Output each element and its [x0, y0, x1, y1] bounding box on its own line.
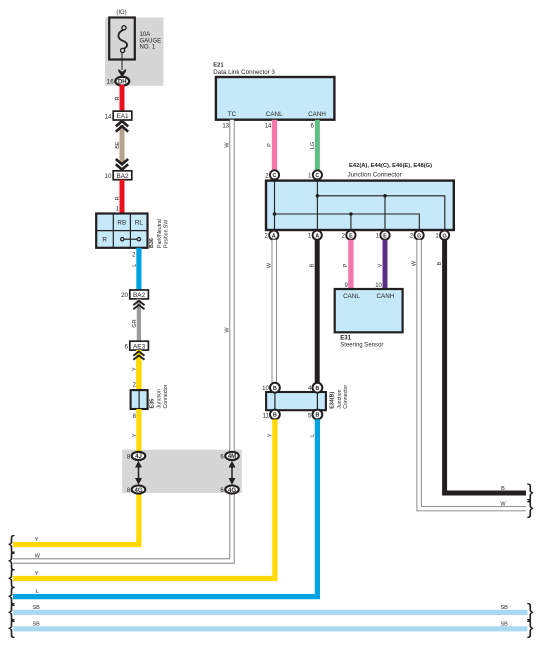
svg-text:Steering Sensor: Steering Sensor — [340, 342, 383, 348]
svg-text:4G: 4G — [134, 488, 142, 494]
splice 4M — [220, 452, 238, 461]
svg-text:10: 10 — [105, 173, 112, 180]
svg-text:Y: Y — [132, 433, 138, 437]
svg-text:GAUGE: GAUGE — [140, 38, 162, 44]
chevrons above BA2 — [116, 159, 128, 170]
svg-text:E21: E21 — [213, 63, 224, 69]
splice DH — [115, 77, 129, 86]
wire SB (bus 2) — [13, 626, 528, 631]
splice 4G (left) — [127, 485, 145, 494]
component label E35 Junction Connector — [150, 384, 169, 408]
svg-text:L: L — [310, 434, 316, 437]
svg-text:CANH: CANH — [376, 293, 394, 300]
pin 11B — [263, 410, 280, 420]
svg-text:Position SW: Position SW — [164, 220, 170, 248]
svg-text:W: W — [225, 327, 231, 333]
wire CANH bus (upper) — [317, 179, 444, 230]
pin 1A — [308, 231, 322, 240]
svg-text:Park/Neutral: Park/Neutral — [157, 219, 163, 248]
wire Y (AE3 to E35) — [136, 350, 142, 390]
svg-text:RL: RL — [135, 220, 144, 227]
svg-text:C: C — [315, 173, 319, 179]
svg-text:E: E — [383, 233, 387, 239]
gray panel junction-block area — [122, 450, 242, 493]
connector AE3 pin 6 — [125, 341, 149, 350]
svg-text:Junction: Junction — [337, 389, 343, 408]
wire Y (E35 down to splice 4J) — [136, 409, 141, 456]
junction connector E42(A), E44(C), E46(E), E48(G) — [266, 163, 454, 230]
svg-text:L: L — [132, 264, 138, 267]
arrow link 4M to 4G — [229, 461, 236, 485]
wire BE (EA1 to BA2) — [120, 125, 125, 164]
junction dot (2C bus) — [273, 212, 277, 216]
svg-text:}: } — [527, 617, 534, 639]
wire R (DH to EA1) — [120, 85, 125, 111]
sensor E31 Steering Sensor — [335, 289, 403, 348]
svg-text:AE3: AE3 — [133, 343, 146, 350]
svg-text:B: B — [273, 413, 277, 419]
pin 2A — [265, 231, 279, 240]
svg-text:B: B — [437, 261, 443, 265]
arrow into DH — [118, 69, 126, 77]
svg-text:W: W — [412, 260, 418, 266]
svg-text:B: B — [315, 386, 319, 392]
svg-text:4M: 4M — [228, 454, 236, 460]
wire W (E21 TC down to splice 4M) — [229, 120, 234, 456]
wire Y (splice 4G down to bottom) — [13, 490, 139, 545]
svg-text:Y: Y — [35, 537, 39, 543]
wire Y (E34 pin 11 down to bottom) — [13, 419, 275, 578]
svg-text:4G: 4G — [228, 488, 236, 494]
wire V (1E to E31 pin 10) — [383, 240, 388, 289]
svg-text:GR: GR — [132, 319, 138, 327]
wire GR (BA2 to AE3) — [137, 299, 141, 342]
pin 4B — [308, 383, 322, 393]
arrow link 4J to 4G — [135, 461, 142, 485]
wire W (splice 4G down to bottom) — [13, 490, 232, 562]
fuse value label 10A GAUGE NO. 1 — [140, 32, 162, 50]
wire R (BA2 to B36 pin 1) — [120, 180, 125, 214]
svg-text:R: R — [115, 196, 121, 200]
svg-text:}: } — [527, 497, 534, 519]
wire SB (bus 1) — [13, 610, 528, 615]
svg-text:R: R — [115, 97, 121, 101]
junction dot (2E bus) — [349, 212, 353, 216]
svg-text:Data Link Connector 3: Data Link Connector 3 — [213, 69, 275, 76]
svg-text:SB: SB — [501, 621, 509, 627]
svg-text:P: P — [343, 263, 349, 267]
svg-text:CANL: CANL — [266, 111, 283, 118]
svg-text:(IG): (IG) — [116, 10, 126, 16]
pin 5B — [308, 410, 322, 420]
svg-text:B: B — [273, 386, 277, 392]
connector E21 Data Link Connector 3 — [213, 63, 334, 120]
svg-text:Y: Y — [35, 571, 39, 577]
svg-text:16: 16 — [107, 78, 115, 85]
svg-text:4J: 4J — [135, 454, 142, 460]
svg-text:B: B — [315, 413, 319, 419]
svg-text:L: L — [36, 589, 39, 595]
pin 10B — [262, 383, 280, 393]
svg-text:A: A — [272, 233, 276, 239]
splice 4J — [127, 452, 145, 461]
wire fuse to arrow — [121, 52, 123, 70]
svg-text:R: R — [102, 237, 107, 244]
wire W (2A to E34 pin 10) — [272, 240, 277, 383]
svg-text:TC: TC — [228, 111, 237, 118]
wire P (E21 CANL to 2C) — [272, 120, 277, 171]
svg-text:G: G — [442, 233, 446, 239]
wire B (1A to E34 pin 4) — [315, 240, 320, 383]
wire L (B36 to BA2) — [136, 248, 141, 290]
chevrons below BA2 — [133, 301, 144, 309]
svg-text:SB: SB — [33, 621, 41, 627]
pin 2G — [410, 231, 424, 240]
junction dot (1C bus) — [316, 194, 320, 198]
svg-text:14: 14 — [265, 124, 272, 130]
svg-text:CANL: CANL — [343, 293, 360, 300]
svg-text:Connector: Connector — [163, 384, 169, 408]
svg-text:B: B — [310, 263, 316, 267]
svg-text:{: { — [8, 617, 15, 639]
component label E34(B) Junction Connector — [330, 385, 350, 409]
connector EA1 pin 14 — [105, 111, 132, 120]
svg-text:SB: SB — [33, 605, 41, 611]
switch B36 Park/Neutral Position SW — [96, 214, 147, 248]
svg-text:P: P — [267, 143, 273, 147]
wire L (E34 pin 5 down to bottom) — [13, 419, 317, 596]
svg-text:Y: Y — [132, 367, 138, 371]
svg-text:NO. 1: NO. 1 — [140, 45, 156, 51]
fuse 10A GAUGE NO. 1 — [109, 18, 135, 60]
svg-text:W: W — [267, 262, 273, 268]
pin 1G — [435, 231, 449, 240]
svg-text:Y: Y — [268, 433, 274, 437]
pin 1E — [376, 231, 390, 240]
svg-text:W: W — [225, 142, 231, 148]
connector BA2 pin 10 — [105, 171, 132, 180]
component label B36 Park/Neutral Position SW — [149, 219, 170, 248]
svg-text:CANH: CANH — [308, 111, 326, 118]
svg-text:EA1: EA1 — [116, 113, 129, 120]
splice 4G (right) — [220, 485, 238, 494]
svg-text:A: A — [315, 233, 319, 239]
pin 2C — [265, 170, 279, 179]
svg-text:W: W — [500, 502, 506, 508]
svg-text:SB: SB — [501, 605, 509, 611]
wire CANL bus (lower) — [274, 179, 420, 230]
wire P (2E to E31 pin 9) — [348, 240, 353, 289]
svg-text:E: E — [349, 233, 353, 239]
svg-text:BA2: BA2 — [133, 292, 146, 299]
svg-text:10: 10 — [262, 386, 269, 392]
svg-text:BA2: BA2 — [116, 173, 129, 180]
junction connector E34(B) — [266, 392, 326, 410]
svg-text:E31: E31 — [340, 335, 351, 341]
gray panel fuse area — [105, 18, 164, 86]
junction dot (1E bus) — [383, 194, 387, 198]
svg-text:LG: LG — [310, 142, 316, 149]
svg-text:6: 6 — [125, 343, 129, 350]
chevrons below AE3 — [133, 351, 144, 359]
svg-text:BE: BE — [115, 141, 121, 149]
pin 1C — [308, 170, 322, 179]
wire LG (E21 CANH to 1C) — [315, 120, 320, 171]
svg-text:W: W — [35, 554, 41, 560]
connector BA2 pin 20 — [121, 290, 148, 299]
svg-text:14: 14 — [105, 113, 112, 120]
svg-text:B36: B36 — [149, 238, 155, 248]
pin 2E — [342, 231, 356, 240]
svg-text:11: 11 — [263, 413, 270, 419]
svg-text:DH: DH — [118, 79, 127, 85]
chevrons below EA1 — [116, 121, 128, 132]
svg-text:Connector: Connector — [343, 385, 349, 409]
svg-text:B: B — [501, 486, 505, 492]
svg-text:E42(A), E44(C), E46(E), E48(G): E42(A), E44(C), E46(E), E48(G) — [349, 163, 432, 169]
svg-text:20: 20 — [121, 292, 128, 299]
junction connector E35 — [131, 390, 148, 409]
svg-text:Junction: Junction — [156, 389, 162, 408]
wire B (1G down and right to edge) — [445, 240, 526, 493]
svg-text:Junction Connector: Junction Connector — [348, 171, 402, 178]
svg-text:E35: E35 — [150, 399, 156, 409]
svg-text:10A: 10A — [140, 32, 151, 38]
svg-text:C: C — [273, 173, 277, 179]
svg-text:13: 13 — [222, 124, 229, 130]
svg-text:V: V — [378, 263, 384, 267]
svg-text:E34(B): E34(B) — [330, 392, 336, 409]
wire W (2G down and right to edge) — [419, 240, 526, 509]
svg-text:G: G — [417, 233, 421, 239]
svg-text:RB: RB — [117, 220, 126, 227]
